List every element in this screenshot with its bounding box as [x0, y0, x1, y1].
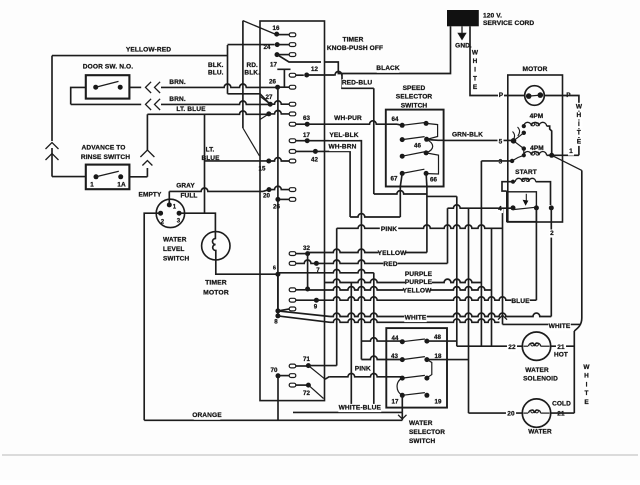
wire YELLOW bus 2 [308, 287, 492, 290]
motor terminal 2 dot [549, 205, 554, 210]
motor diagonal to right vertical [552, 155, 582, 170]
svg-text:SERVICE CORD: SERVICE CORD [483, 20, 534, 27]
door switch right lead [129, 86, 141, 88]
riser lt blue junction [204, 114, 206, 213]
label P right [565, 92, 571, 100]
motor box [508, 75, 563, 222]
svg-text:GRAY: GRAY [176, 183, 195, 190]
motor start switch box [507, 192, 537, 222]
label 21 cold [556, 410, 566, 418]
label GRN-BLK [452, 131, 483, 139]
speed selector switch box [386, 110, 444, 187]
timer contact 72 [289, 383, 296, 387]
svg-text:17: 17 [270, 61, 278, 68]
label WHITE vertical right [584, 364, 590, 372]
svg-text:BRN.: BRN. [169, 96, 186, 103]
label WHITE vertical service [472, 49, 478, 57]
svg-text:66: 66 [430, 177, 438, 184]
svg-text:RD.: RD. [246, 62, 258, 69]
speed selector curve [426, 140, 433, 153]
timer contact 26b [275, 197, 280, 202]
svg-text:120 V.: 120 V. [483, 13, 502, 20]
svg-text:46: 46 [414, 143, 422, 150]
water selector bottom contacts [400, 393, 405, 398]
wire 22 feed to hot valve [457, 345, 523, 347]
label WH-BRN [329, 143, 356, 151]
motor run winding 4PM lower [522, 153, 526, 157]
timer contact 12 [289, 73, 296, 77]
riser from rinse switch to LT BLUE wire [146, 168, 148, 177]
wire BLUE bus from 9 [316, 297, 536, 300]
vertical 70 to orange [277, 376, 279, 421]
wire 48 exit [427, 340, 457, 342]
wire WHITE-BLUE [293, 411, 402, 413]
cold water solenoid circle [522, 399, 550, 427]
svg-text:GRN-BLK: GRN-BLK [452, 132, 483, 139]
label WHITE right [548, 322, 570, 330]
svg-text:72: 72 [303, 390, 311, 397]
motor protector contacts [526, 93, 532, 99]
svg-text:SELECTOR: SELECTOR [409, 429, 445, 436]
svg-text:26: 26 [269, 79, 277, 86]
svg-text:START: START [515, 169, 537, 176]
vertical yellow2 right [491, 228, 493, 346]
wire 18 exit to cold valve [427, 359, 469, 361]
water selector s-curve [397, 378, 402, 395]
svg-text:22: 22 [508, 344, 516, 351]
motor protector circle [525, 86, 545, 106]
wire 4 to red riser [448, 205, 514, 208]
hot water solenoid circle [522, 332, 550, 360]
wire PINK bus [337, 225, 503, 228]
timer top-left diagonal and vertical [243, 21, 275, 34]
svg-text:FULL: FULL [180, 193, 197, 200]
svg-text:4PM: 4PM [530, 113, 544, 120]
svg-text:EMPTY: EMPTY [139, 192, 162, 199]
vertical purple2 to motor 3 [480, 161, 482, 346]
wire hot valve right [551, 345, 575, 347]
wire yel-blk to water selector 44 [361, 338, 402, 341]
wire cold valve right [551, 412, 575, 414]
svg-text:RINSE SWITCH: RINSE SWITCH [81, 154, 130, 161]
svg-text:2: 2 [550, 230, 554, 237]
svg-text:44: 44 [391, 335, 399, 342]
svg-text:63: 63 [303, 115, 311, 122]
svg-text:E: E [584, 399, 589, 406]
wire lt blue to contact 15 [205, 160, 269, 162]
start switch actuator arrow [525, 194, 527, 202]
label P left [498, 92, 504, 100]
wire protector left [508, 95, 525, 97]
label 4 [497, 205, 503, 213]
wire protector right to white [544, 96, 579, 156]
timer inner vertical 274-316 [277, 274, 279, 316]
svg-text:WH-PUR: WH-PUR [334, 115, 362, 122]
water selector switch box [386, 328, 447, 408]
svg-text:1A: 1A [117, 182, 126, 189]
svg-text:YELLOW: YELLOW [378, 250, 407, 257]
svg-text:1: 1 [90, 182, 94, 189]
motor run winding 4PM upper [522, 124, 526, 128]
svg-text:RED-BLU: RED-BLU [342, 80, 373, 87]
svg-text:SELECTOR: SELECTOR [396, 94, 433, 101]
label YEL-BLK [329, 132, 360, 140]
svg-text:21: 21 [557, 411, 565, 418]
wire PURPLE bus 1 [278, 269, 374, 272]
wire blue riser to start switch [535, 208, 537, 300]
contact 72 blade [308, 385, 323, 398]
svg-text:4PM: 4PM [530, 145, 544, 152]
svg-text:WATER: WATER [528, 429, 552, 436]
connector chevron white [498, 315, 507, 320]
timer contact 17 blade [275, 52, 280, 57]
timer contact 17 fixed T [277, 69, 290, 87]
wire BRN to timer contact 27 [161, 101, 270, 104]
svg-text:DOOR SW. N.O.: DOOR SW. N.O. [83, 64, 133, 71]
label WHITE vertical motor [576, 103, 582, 111]
svg-text:E: E [577, 139, 582, 146]
water selector mid contacts [400, 376, 405, 381]
wire from dot2 down-left to orange [144, 213, 160, 420]
svg-text:H: H [584, 373, 589, 380]
label 20 [506, 410, 516, 418]
wire YEL-BLK from 17b [307, 141, 361, 145]
svg-text:MOTOR: MOTOR [523, 66, 548, 73]
stub for yellow2 [289, 288, 296, 292]
wire pink2 to mid contact [325, 377, 329, 380]
wire GRN-BLK to motor 5 [427, 139, 444, 142]
door switch left lead loop [71, 87, 86, 104]
wire yellow-red to timer contact 24 [228, 44, 275, 46]
svg-text:BLU.: BLU. [208, 70, 224, 77]
svg-text:MOTOR: MOTOR [203, 290, 229, 297]
water level switch S3 circle [156, 199, 184, 227]
wire YELLOW bus from 32 [308, 249, 427, 252]
wire LT BLUE to timer contact [147, 111, 268, 114]
svg-text:3: 3 [177, 219, 181, 225]
wire RED-BLU from 12 [335, 72, 374, 89]
svg-text:3: 3 [499, 159, 503, 166]
svg-text:TIMER: TIMER [342, 37, 363, 44]
svg-text:BLACK: BLACK [376, 65, 400, 72]
svg-text:71: 71 [303, 356, 311, 363]
svg-text:1: 1 [173, 205, 177, 211]
svg-text:I: I [578, 121, 580, 128]
vertical 66 drop to yellow [426, 187, 428, 253]
svg-text:H: H [577, 112, 582, 119]
scan artifact line [2, 454, 638, 456]
motor centrifugal switch [511, 138, 517, 144]
svg-text:42: 42 [311, 157, 319, 164]
svg-text:LT.: LT. [206, 147, 215, 154]
rinse switch contact dots [94, 174, 99, 179]
label 22 [507, 344, 517, 352]
wire from 3 to winding [512, 149, 524, 161]
svg-text:32: 32 [303, 245, 311, 252]
svg-text:TIMER: TIMER [205, 280, 227, 287]
svg-text:BLK.: BLK. [208, 62, 224, 69]
wire 66 to 48 link [427, 195, 457, 197]
ground lead and arrow [461, 26, 463, 33]
timer motor bottom lead to junction [216, 260, 278, 274]
left outer vertical wire [51, 56, 53, 141]
wire WHITE bus H from 8 [278, 316, 330, 322]
timer box outline [260, 21, 325, 401]
contact lt blue blade [260, 114, 269, 120]
door switch SW1 box [86, 75, 130, 98]
svg-text:LEVEL: LEVEL [163, 246, 184, 253]
timer motor junction dot [275, 272, 280, 277]
svg-text:19: 19 [434, 398, 442, 405]
svg-text:YEL-BLK: YEL-BLK [329, 132, 358, 139]
svg-text:YELLOW: YELLOW [403, 288, 432, 295]
wire 2 drop [550, 208, 552, 317]
svg-text:20: 20 [263, 193, 271, 200]
vertical 48 riser to hot valve 22 [456, 196, 458, 346]
label 5 [497, 138, 503, 146]
motor start winding [511, 180, 515, 184]
svg-text:PINK: PINK [355, 366, 371, 373]
svg-text:67: 67 [390, 176, 398, 183]
door switch blade [96, 81, 119, 87]
connector chevrons brn wire 1 [146, 82, 152, 93]
svg-text:W: W [576, 103, 583, 110]
svg-text:27: 27 [265, 94, 273, 101]
svg-text:WATER: WATER [163, 237, 187, 244]
wire 42 to 67 drop [350, 214, 400, 217]
svg-text:HOT: HOT [554, 352, 568, 359]
svg-text:BLK.: BLK. [244, 70, 260, 77]
wire ORANGE [144, 419, 402, 421]
timer contact 9 [289, 298, 296, 302]
water selector row1 contacts [400, 339, 405, 344]
door switch contact dots [93, 85, 98, 90]
wire white from service cord [470, 26, 508, 95]
speed selector inner link row1-row2 [426, 123, 438, 139]
svg-text:20: 20 [507, 411, 515, 418]
svg-text:YELLOW-RED: YELLOW-RED [126, 47, 171, 54]
speed selector row3 contacts [400, 154, 405, 159]
svg-text:SOLENOID: SOLENOID [523, 376, 558, 383]
vertical to cold valve [468, 208, 470, 413]
water selector curve [427, 359, 432, 378]
svg-text:I: I [474, 67, 476, 74]
svg-text:WATER: WATER [409, 420, 433, 427]
svg-text:H: H [473, 58, 478, 65]
svg-text:PURPLE: PURPLE [405, 271, 433, 278]
label PINK 2 [354, 365, 372, 373]
label RED-BLU [342, 79, 373, 87]
label 21 hot [556, 344, 566, 352]
wire to rinse switch [52, 176, 86, 178]
svg-text:P: P [499, 92, 504, 99]
svg-text:BRN.: BRN. [169, 79, 186, 86]
wire RED bus from 7 [316, 260, 447, 263]
wire RED-BLU vertical [373, 88, 375, 194]
connector chevrons on left vertical [46, 143, 59, 150]
svg-text:21: 21 [557, 344, 565, 351]
label 3 [497, 158, 503, 166]
label ORANGE [194, 412, 221, 420]
timer contact 8 [275, 308, 280, 313]
wire 17 drop with connector [401, 395, 403, 412]
wire yellow-red riser at x227 [227, 45, 229, 94]
label BLACK [377, 65, 399, 73]
wire YELLOW-RED horizontal [52, 55, 228, 57]
svg-text:BLUE: BLUE [511, 298, 530, 305]
wire WH-PUR 63 to speed selector [307, 121, 397, 124]
service cord plug [447, 10, 479, 26]
svg-text:SPEED: SPEED [403, 85, 426, 92]
wire yel-blk to 43 [361, 356, 402, 359]
start switch contacts [511, 205, 516, 210]
svg-text:12: 12 [311, 66, 319, 73]
svg-text:RED: RED [383, 261, 397, 268]
vertical 32 drop [307, 254, 309, 289]
contact 71 blade [308, 366, 325, 380]
cold solenoid coil [523, 412, 528, 414]
timer inner vertical from 26 [277, 87, 279, 312]
svg-text:2: 2 [161, 220, 165, 226]
timer motor coil [212, 232, 215, 260]
speed selector inner link row3-row4 [426, 153, 438, 174]
svg-text:T: T [473, 75, 477, 82]
wire PURPLE bus 2 [325, 279, 482, 282]
speed selector row2 contacts [400, 137, 405, 142]
svg-text:26: 26 [273, 204, 281, 211]
svg-text:ADVANCE TO: ADVANCE TO [82, 145, 126, 152]
hot solenoid coil [523, 345, 528, 347]
svg-text:PINK: PINK [381, 226, 397, 233]
svg-text:48: 48 [434, 334, 442, 341]
svg-text:W: W [472, 50, 479, 57]
rinse switch blade [96, 171, 119, 177]
svg-text:70: 70 [270, 367, 278, 374]
svg-text:24: 24 [263, 44, 271, 51]
timer motor M2 circle [202, 232, 230, 260]
label 1 [568, 148, 574, 156]
svg-text:64: 64 [391, 116, 399, 123]
wire 67 to box bottom [400, 173, 402, 186]
wire WHITE bus G from 8 [278, 311, 330, 317]
start winding left notch [502, 182, 513, 191]
wire WHITE to hot valve [502, 208, 504, 324]
svg-text:KNOB-PUSH OFF: KNOB-PUSH OFF [327, 45, 383, 52]
svg-text:PURPLE: PURPLE [405, 279, 433, 286]
rinse switch right lead [129, 176, 147, 178]
svg-text:6: 6 [273, 266, 276, 272]
vertical motor4 drop to red [447, 208, 449, 263]
svg-text:WHITE: WHITE [405, 314, 427, 321]
motor junction dot [549, 153, 554, 158]
vertical purple1 drop [373, 273, 375, 413]
wire branch to contact 27 [228, 94, 271, 104]
wire cold valve feed [469, 412, 523, 414]
svg-text:SWITCH: SWITCH [401, 102, 428, 109]
svg-text:1: 1 [569, 148, 573, 155]
wire red-blu horizontal to 66 [374, 191, 427, 194]
vertical 67 drop [399, 187, 401, 218]
timer contact 7 [289, 262, 296, 266]
white vertical to cold valve [573, 331, 575, 413]
svg-text:15: 15 [258, 166, 266, 173]
vertical yel-blk [360, 145, 362, 360]
svg-text:17: 17 [391, 398, 399, 405]
svg-text:SWITCH: SWITCH [163, 256, 189, 263]
svg-text:W: W [583, 364, 590, 371]
svg-text:T: T [585, 390, 589, 397]
timer contact lt blue [266, 111, 271, 116]
right white vertical [581, 170, 583, 318]
vertical purple2 drop [350, 283, 352, 413]
svg-text:LT. BLUE: LT. BLUE [176, 106, 206, 113]
svg-text:E: E [473, 84, 478, 91]
junction dot y289 [305, 287, 310, 292]
svg-text:16: 16 [272, 25, 280, 32]
svg-text:WHITE: WHITE [549, 323, 571, 330]
wire under door switch [71, 103, 142, 105]
label WH-PUR [335, 115, 362, 123]
wire 1 from junction to white [552, 154, 579, 156]
water selector row2 contacts [400, 357, 405, 362]
svg-text:8: 8 [274, 319, 278, 326]
svg-text:9: 9 [314, 304, 318, 311]
svg-text:SWITCH: SWITCH [409, 438, 435, 445]
svg-text:WATER: WATER [525, 367, 549, 374]
svg-text:WHITE-BLUE: WHITE-BLUE [339, 404, 382, 411]
timer contact 24 [275, 42, 280, 47]
svg-text:I: I [586, 381, 588, 388]
wire 12 to timer edge [307, 74, 335, 76]
wire pink riser to 71 [336, 228, 338, 365]
wire 66 to box bottom [425, 173, 428, 186]
svg-text:ORANGE: ORANGE [192, 412, 222, 419]
svg-text:5: 5 [499, 139, 503, 146]
connector chevrons brn wire 2 [146, 99, 152, 110]
label 2 [549, 230, 555, 238]
wire from dot3 to timer motor [179, 213, 215, 231]
wire WH-BRN from 42 [315, 151, 350, 217]
contact 27 blade [260, 96, 270, 104]
label WHITE-BLUE [338, 404, 381, 412]
rinse switch SW2 box [86, 165, 130, 190]
svg-text:WH-BRN: WH-BRN [328, 143, 356, 150]
wire 3 horizontal [481, 160, 512, 162]
wire BRN to timer contact 26 [161, 84, 278, 87]
svg-text:17: 17 [303, 132, 311, 139]
wire BLACK from timer to service cord [325, 26, 451, 73]
svg-text:T: T [577, 130, 581, 137]
wire gray from dot1 to timer contact 20 [168, 191, 170, 205]
water level switch dots [167, 202, 172, 207]
label WHITE bus [404, 314, 426, 322]
svg-text:COLD: COLD [552, 401, 571, 408]
